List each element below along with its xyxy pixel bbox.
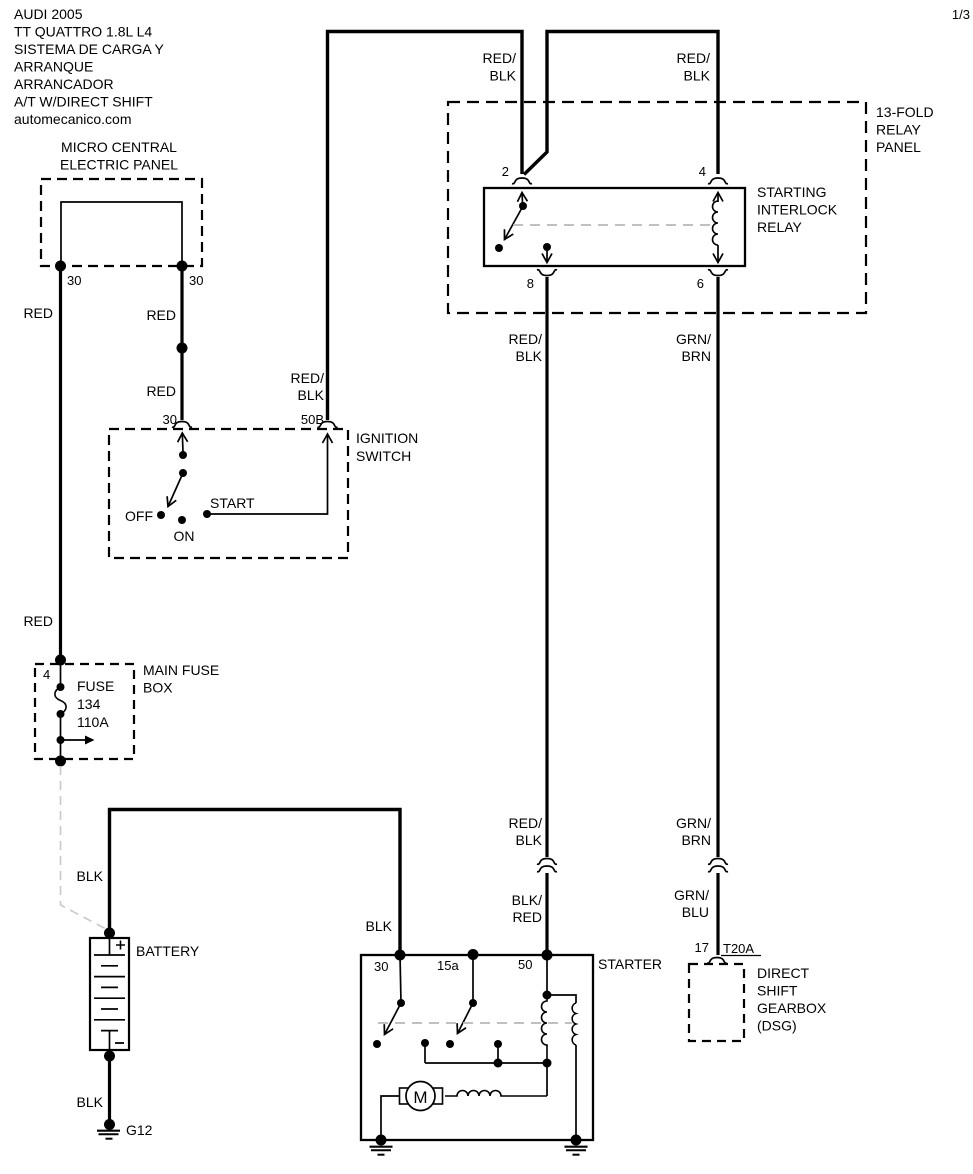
ignition switch dashed box xyxy=(109,429,348,558)
node battery negative xyxy=(104,1051,115,1062)
motor M xyxy=(400,1082,443,1111)
svg-text:BLK: BLK xyxy=(490,68,517,84)
node panel left terminal xyxy=(55,261,66,272)
svg-text:SHIFT: SHIFT xyxy=(757,983,798,999)
terminal arc ignition 30 xyxy=(172,422,192,428)
svg-text:RED: RED xyxy=(146,307,176,323)
svg-text:RELAY: RELAY xyxy=(876,122,922,138)
svg-text:RED: RED xyxy=(23,613,53,629)
svg-text:GRN/: GRN/ xyxy=(676,331,711,347)
svg-text:ELECTRIC PANEL: ELECTRIC PANEL xyxy=(60,157,178,173)
svg-text:RED/: RED/ xyxy=(677,50,711,66)
svg-text:SWITCH: SWITCH xyxy=(356,448,411,464)
terminal arc pin 6 xyxy=(708,270,728,276)
ground starter right xyxy=(565,1135,588,1155)
svg-text:30: 30 xyxy=(67,273,81,288)
armature inductor xyxy=(445,1091,547,1097)
node pin 8 contact xyxy=(543,243,551,251)
starter switch 15a xyxy=(472,955,474,1004)
svg-text:MICRO CENTRAL: MICRO CENTRAL xyxy=(61,139,177,155)
starting interlock relay box xyxy=(484,188,745,266)
terminal arrow pin 6 xyxy=(717,245,719,263)
svg-text:1/3: 1/3 xyxy=(952,7,970,22)
wire GRN/BLU to DSG xyxy=(716,873,719,955)
svg-text:(DSG): (DSG) xyxy=(757,1018,797,1034)
node ON contact xyxy=(178,516,186,524)
svg-text:BLK: BLK xyxy=(77,1094,104,1110)
solenoid feed xyxy=(546,955,548,995)
wire contact bus xyxy=(425,1062,547,1064)
solenoid hold-in feed xyxy=(547,995,576,1003)
wire RED right (panel to ignition 30) xyxy=(180,266,183,420)
terminal arc DSG 17 xyxy=(707,958,727,964)
svg-text:MAIN FUSE: MAIN FUSE xyxy=(143,662,219,678)
svg-text:17: 17 xyxy=(695,940,709,955)
node pin 30 xyxy=(395,950,406,961)
svg-text:IGNITION: IGNITION xyxy=(356,430,418,446)
svg-text:G12: G12 xyxy=(126,1122,153,1138)
wire hold-in to ground xyxy=(575,1045,577,1140)
svg-text:DIRECT: DIRECT xyxy=(757,965,810,981)
svg-text:START: START xyxy=(210,495,255,511)
switch blade ignition xyxy=(168,473,183,507)
terminal arc pin 4 xyxy=(708,178,728,184)
13-fold relay panel dashed box xyxy=(448,102,866,313)
wire BLK/RED to starter 50 xyxy=(545,873,548,956)
svg-text:50: 50 xyxy=(518,957,532,972)
svg-text:8: 8 xyxy=(527,276,534,291)
svg-text:RED/: RED/ xyxy=(509,815,543,831)
svg-text:RED: RED xyxy=(146,383,176,399)
svg-text:T20A: T20A xyxy=(723,941,754,956)
svg-text:BLK: BLK xyxy=(516,832,543,848)
fuse element xyxy=(55,687,66,714)
battery plates xyxy=(94,938,125,1050)
svg-text:RED: RED xyxy=(512,909,542,925)
wire RED/BLK 50B to relay pin 2 xyxy=(328,32,523,421)
inline connector right xyxy=(708,859,728,865)
node contact a xyxy=(179,451,187,459)
fuse link wire xyxy=(60,660,62,687)
svg-text:automecanico.com: automecanico.com xyxy=(14,111,132,127)
svg-text:RED/: RED/ xyxy=(509,331,543,347)
svg-text:PANEL: PANEL xyxy=(876,139,921,155)
svg-text:INTERLOCK: INTERLOCK xyxy=(757,202,838,218)
svg-text:AUDI 2005: AUDI 2005 xyxy=(14,6,83,22)
node START contact xyxy=(203,510,211,518)
svg-text:4: 4 xyxy=(699,164,706,179)
svg-text:BLK: BLK xyxy=(516,348,543,364)
svg-text:4: 4 xyxy=(43,667,50,682)
svg-text:BLU: BLU xyxy=(682,904,709,920)
fuse tap arrow xyxy=(61,739,87,741)
solenoid pull-in winding xyxy=(542,995,547,1063)
svg-text:110A: 110A xyxy=(77,714,109,730)
main fuse box dashed box xyxy=(35,664,134,759)
svg-text:GEARBOX: GEARBOX xyxy=(757,1000,827,1016)
fuse output wire xyxy=(60,714,62,761)
svg-text:SISTEMA DE CARGA Y: SISTEMA DE CARGA Y xyxy=(14,41,165,57)
svg-text:BLK: BLK xyxy=(366,918,393,934)
svg-text:ARRANCADOR: ARRANCADOR xyxy=(14,76,114,92)
wire RED/BLK jumper pin2 to pin 4 xyxy=(524,32,718,175)
wire GRN/BRN relay pin 6 down xyxy=(716,277,719,857)
svg-text:6: 6 xyxy=(697,276,704,291)
wire RED left (panel to fuse box) xyxy=(59,266,62,660)
wire RED/BLK relay pin 8 down xyxy=(545,277,548,857)
starter box xyxy=(361,955,593,1140)
relay linkage dashed xyxy=(513,224,713,226)
svg-text:BRN: BRN xyxy=(681,832,711,848)
svg-text:13-FOLD: 13-FOLD xyxy=(876,104,934,120)
wire motor to ground xyxy=(381,1096,400,1140)
panel internal bus xyxy=(61,202,182,266)
battery xyxy=(104,928,115,939)
node relay switch bottom xyxy=(495,244,503,252)
node fuse tap xyxy=(57,736,65,744)
svg-text:GRN/: GRN/ xyxy=(674,887,709,903)
ground G12 xyxy=(97,1119,120,1139)
ground starter left xyxy=(370,1135,393,1155)
svg-text:30: 30 xyxy=(374,959,388,974)
terminal arrow pin 8 xyxy=(546,247,548,263)
svg-text:FUSE: FUSE xyxy=(77,678,114,694)
node pin 50 xyxy=(542,950,553,961)
svg-text:BATTERY: BATTERY xyxy=(136,943,200,959)
node relay switch top xyxy=(519,202,527,210)
wire BLK battery to ground xyxy=(108,1056,111,1122)
svg-text:OFF: OFF xyxy=(125,508,153,524)
battery minus sign xyxy=(115,1042,124,1044)
terminal arc ignition 50B xyxy=(318,422,338,428)
terminal arrow pin 2 xyxy=(521,193,524,204)
svg-text:30: 30 xyxy=(189,273,203,288)
svg-text:RED/: RED/ xyxy=(483,50,517,66)
svg-text:2: 2 xyxy=(502,164,509,179)
svg-text:M: M xyxy=(413,1088,427,1107)
node fuse top xyxy=(57,683,65,691)
terminal arc pin 2 xyxy=(512,178,532,184)
node pin 15a xyxy=(468,949,479,960)
svg-text:BOX: BOX xyxy=(143,680,173,696)
svg-text:GRN/: GRN/ xyxy=(676,815,711,831)
micro central electric panel dashed box xyxy=(41,179,202,266)
node fuse box bottom xyxy=(55,756,66,767)
svg-text:BLK: BLK xyxy=(684,68,711,84)
svg-text:BRN: BRN xyxy=(681,348,711,364)
inline connector left xyxy=(537,859,557,865)
node OFF contact xyxy=(157,511,165,519)
svg-text:ON: ON xyxy=(174,528,195,544)
wire BLK battery to starter 30 xyxy=(110,810,401,957)
terminal arrow ignition 30 xyxy=(181,433,184,452)
svg-text:15a: 15a xyxy=(437,958,459,973)
main fuse box node top xyxy=(55,655,66,666)
battery plus sign xyxy=(116,941,125,950)
svg-text:STARTER: STARTER xyxy=(598,956,662,972)
svg-text:134: 134 xyxy=(77,696,101,712)
solenoid hold-in winding xyxy=(572,1003,576,1045)
svg-text:A/T W/DIRECT SHIFT: A/T W/DIRECT SHIFT xyxy=(14,94,153,110)
svg-text:STARTING: STARTING xyxy=(757,184,827,200)
node fuse bottom xyxy=(57,710,65,718)
svg-text:RED/: RED/ xyxy=(291,370,325,386)
svg-text:BLK: BLK xyxy=(298,387,325,403)
node contact b xyxy=(179,469,187,477)
wire bus to armature xyxy=(546,1063,548,1096)
relay switch blade xyxy=(505,206,524,240)
svg-text:ARRANQUE: ARRANQUE xyxy=(14,59,93,75)
node panel right terminal xyxy=(177,261,188,272)
node junction on right RED wire xyxy=(177,343,188,354)
wire dashed gray fuse to battery xyxy=(61,766,107,929)
svg-text:RELAY: RELAY xyxy=(757,219,803,235)
wire START to 50B xyxy=(207,434,328,514)
terminal arc pin 8 xyxy=(537,270,557,276)
terminal arrow pin 4 xyxy=(717,193,719,203)
relay coil xyxy=(713,201,719,245)
starter switch 30 xyxy=(400,955,401,1003)
svg-text:RED: RED xyxy=(23,305,53,321)
svg-text:TT QUATTRO 1.8L L4: TT QUATTRO 1.8L L4 xyxy=(14,24,152,40)
direct shift gearbox dashed box xyxy=(689,964,744,1041)
node contact row xyxy=(421,1039,429,1047)
svg-text:BLK: BLK xyxy=(77,868,104,884)
svg-text:BLK/: BLK/ xyxy=(512,892,542,908)
title block text xyxy=(14,6,165,127)
starter linkage dashed xyxy=(378,1022,572,1024)
